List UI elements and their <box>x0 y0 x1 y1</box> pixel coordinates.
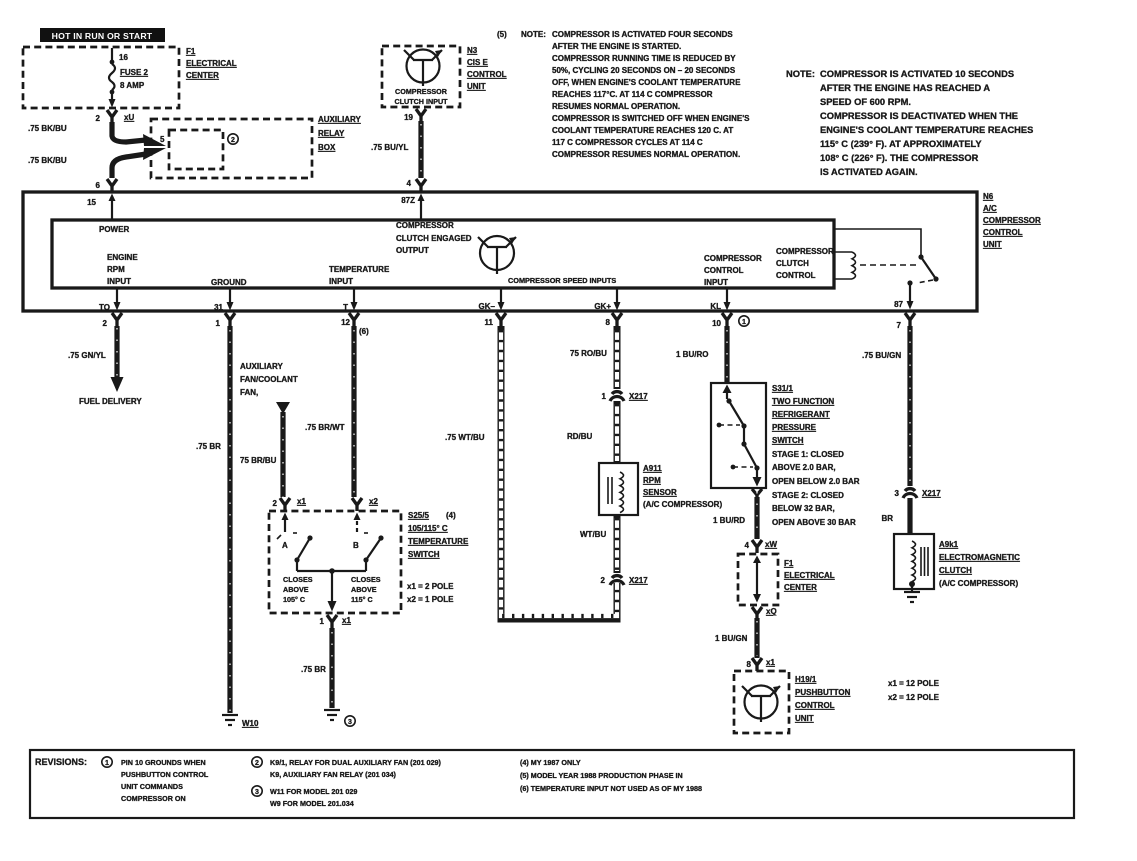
temp switch entry arrow A <box>277 513 289 540</box>
svg-text:3: 3 <box>348 719 352 726</box>
svg-text:31: 31 <box>214 303 223 312</box>
S31/1 stage contacts <box>717 398 760 470</box>
svg-text:TEMPERATURE: TEMPERATURE <box>408 537 469 546</box>
svg-text:PUSHBUTTON: PUSHBUTTON <box>795 688 851 697</box>
svg-text:GK+: GK+ <box>594 302 611 311</box>
svg-text:POWER: POWER <box>99 225 129 234</box>
A911 RPM sensor box <box>599 463 638 515</box>
svg-text:X217: X217 <box>629 392 648 401</box>
svg-text:CENTER: CENTER <box>784 583 817 592</box>
svg-text:19: 19 <box>404 113 413 122</box>
svg-text:2: 2 <box>96 114 101 123</box>
svg-text:ELECTROMAGNETIC: ELECTROMAGNETIC <box>939 553 1020 562</box>
x2 connector (temp switch) <box>352 497 378 511</box>
svg-text:NOTE:: NOTE: <box>521 30 546 39</box>
svg-text:AUXILIARY: AUXILIARY <box>240 362 283 371</box>
wire .75 BR (temp switch to ground) <box>301 628 332 708</box>
bottom terminal 87 pin 7 <box>897 313 915 330</box>
F1 lower internal wire <box>753 556 761 603</box>
N3 CIS E control unit box <box>382 46 460 107</box>
svg-text:RELAY: RELAY <box>318 129 345 138</box>
svg-text:87Z: 87Z <box>401 196 415 205</box>
svg-text:INPUT: INPUT <box>704 278 728 287</box>
label closes above 105 C <box>283 575 313 604</box>
svg-text:UNIT COMMANDS: UNIT COMMANDS <box>121 782 183 791</box>
ground W10 <box>222 715 259 728</box>
auxiliary relay box <box>151 119 312 178</box>
wire 1 BU/RO (KL) <box>676 326 727 383</box>
svg-text:x2 = 12 POLE: x2 = 12 POLE <box>888 693 940 702</box>
svg-text:OPEN ABOVE 30 BAR: OPEN ABOVE 30 BAR <box>772 518 856 527</box>
S31/1 entry arrow <box>723 385 732 400</box>
pin 4 connector <box>407 179 426 192</box>
svg-text:.75 BU/YL: .75 BU/YL <box>371 143 408 152</box>
temp switch contact B <box>353 533 384 571</box>
svg-text:FUEL DELIVERY: FUEL DELIVERY <box>79 397 142 406</box>
svg-text:x1 = 2 POLE: x1 = 2 POLE <box>407 582 454 591</box>
label TEMPERATURE INPUT <box>329 265 390 286</box>
svg-text:1: 1 <box>216 319 221 328</box>
svg-text:115° C: 115° C <box>351 595 373 604</box>
svg-text:RD/BU: RD/BU <box>567 432 593 441</box>
wire .75 GN/YL to fuel delivery <box>68 326 142 406</box>
svg-text:6: 6 <box>96 181 101 190</box>
svg-text:CONTROL: CONTROL <box>795 701 835 710</box>
revisions text <box>35 757 702 808</box>
bottom terminal KL <box>710 288 732 328</box>
svg-text:GROUND: GROUND <box>211 278 247 287</box>
S31/1 exit arrow <box>753 468 762 487</box>
svg-text:N6: N6 <box>983 192 994 201</box>
F1 electrical center box (top) <box>23 47 179 108</box>
svg-text:ABOVE: ABOVE <box>351 585 377 594</box>
temp switch common rail <box>297 568 366 611</box>
svg-text:STAGE 1: CLOSED: STAGE 1: CLOSED <box>772 450 844 459</box>
svg-text:(6): (6) <box>359 327 369 336</box>
N6 inner box <box>52 220 834 288</box>
svg-text:OUTPUT: OUTPUT <box>396 246 429 255</box>
svg-text:16: 16 <box>119 53 128 62</box>
svg-text:B: B <box>353 541 359 550</box>
bottom terminal GK+ <box>594 288 622 328</box>
svg-text:SWITCH: SWITCH <box>772 436 804 445</box>
feed triangle (aux fan wire) <box>276 402 290 414</box>
svg-text:87: 87 <box>894 300 903 309</box>
svg-text:COMPRESSOR IS DEACTIVATED WHEN: COMPRESSOR IS DEACTIVATED WHEN THE <box>820 111 1018 121</box>
svg-text:1: 1 <box>320 617 325 626</box>
svg-text:OFF, WHEN ENGINE'S COOLANT TEM: OFF, WHEN ENGINE'S COOLANT TEMPERATURE <box>552 78 741 87</box>
transistor symbol H19/1 <box>742 686 780 723</box>
svg-text:ELECTRICAL: ELECTRICAL <box>784 571 835 580</box>
transistor symbol in N6 <box>478 236 516 274</box>
label H19/1 pushbutton control unit <box>795 675 851 723</box>
pin 1 x1 connector (temp switch out) <box>320 615 352 630</box>
svg-text:S25/5: S25/5 <box>408 511 429 520</box>
svg-text:FUSE 2: FUSE 2 <box>120 68 149 77</box>
relay coil (clutch control) <box>834 252 856 279</box>
note (5) left <box>497 30 750 159</box>
svg-text:x2 = 1 POLE: x2 = 1 POLE <box>407 595 454 604</box>
svg-text:xU: xU <box>124 113 134 122</box>
label COMPRESSOR CLUTCH CONTROL <box>776 247 834 280</box>
svg-text:CONTROL: CONTROL <box>704 266 744 275</box>
label S31/1 pressure switch <box>772 384 860 527</box>
wire .75 BK/BU lower <box>28 148 166 178</box>
svg-text:INPUT: INPUT <box>329 277 353 286</box>
svg-text:COMPRESSOR IS ACTIVATED FOUR S: COMPRESSOR IS ACTIVATED FOUR SECONDS <box>552 30 733 39</box>
svg-text:ENGINE'S COOLANT TEMPERATURE R: ENGINE'S COOLANT TEMPERATURE REACHES <box>820 125 1033 135</box>
svg-text:T: T <box>343 303 348 312</box>
svg-text:X217: X217 <box>629 576 648 585</box>
svg-text:5: 5 <box>160 135 165 144</box>
svg-text:KL: KL <box>710 302 721 311</box>
bottom terminal TO <box>99 288 122 328</box>
svg-text:2: 2 <box>255 760 259 767</box>
svg-text:COOLANT TEMPERATURE REACHES 12: COOLANT TEMPERATURE REACHES 120 C. AT <box>552 126 733 135</box>
temp switch contact A <box>282 533 313 571</box>
svg-text:HOT IN RUN OR START: HOT IN RUN OR START <box>52 31 153 41</box>
svg-text:K9, AUXILIARY FAN RELAY (201 0: K9, AUXILIARY FAN RELAY (201 034) <box>270 770 397 779</box>
temp switch entry arrow B <box>354 513 361 533</box>
svg-text:CONTROL: CONTROL <box>776 271 816 280</box>
svg-text:1: 1 <box>742 319 746 326</box>
bottom terminal 31 <box>214 288 235 328</box>
S25/5 temperature switch box <box>269 511 401 613</box>
svg-text:(4) MY 1987 ONLY: (4) MY 1987 ONLY <box>520 758 581 767</box>
wire 1 BU/GN <box>715 618 757 658</box>
svg-text:COMPRESSOR IS SWITCHED OFF WHE: COMPRESSOR IS SWITCHED OFF WHEN ENGINE'S <box>552 114 750 123</box>
svg-text:RPM: RPM <box>643 476 661 485</box>
svg-text:PIN 10 GROUNDS WHEN: PIN 10 GROUNDS WHEN <box>121 758 206 767</box>
svg-text:IS ACTIVATED AGAIN.: IS ACTIVATED AGAIN. <box>820 167 918 177</box>
svg-text:108° C (226° F). THE COMPRESSO: 108° C (226° F). THE COMPRESSOR <box>820 153 979 163</box>
wire RD/BU <box>567 401 617 463</box>
svg-text:.75 BU/GN: .75 BU/GN <box>862 351 901 360</box>
svg-text:10: 10 <box>712 319 721 328</box>
svg-text:S31/1: S31/1 <box>772 384 793 393</box>
svg-text:1: 1 <box>105 760 109 767</box>
svg-text:ELECTRICAL: ELECTRICAL <box>186 59 237 68</box>
pin 6 connector <box>96 179 117 192</box>
svg-text:FAN,: FAN, <box>240 388 258 397</box>
svg-text:RESUMES NORMAL OPERATION.: RESUMES NORMAL OPERATION. <box>552 102 680 111</box>
svg-text:2: 2 <box>231 137 235 144</box>
label COMPRESSOR CLUTCH ENGAGED OUTPUT <box>396 221 472 255</box>
svg-text:.75 BK/BU: .75 BK/BU <box>28 124 67 133</box>
svg-text:STAGE 2: CLOSED: STAGE 2: CLOSED <box>772 491 844 500</box>
svg-text:A9k1: A9k1 <box>939 540 959 549</box>
svg-text:8 AMP: 8 AMP <box>120 81 145 90</box>
ground (A9k1) <box>904 592 920 602</box>
relay actuation dashed line <box>860 264 916 266</box>
svg-text:F1: F1 <box>186 47 196 56</box>
wire BR (clutch) <box>881 498 910 534</box>
svg-text:UNIT: UNIT <box>467 82 486 91</box>
svg-text:CONTROL: CONTROL <box>983 228 1023 237</box>
svg-text:1 BU/GN: 1 BU/GN <box>715 634 748 643</box>
label A911 RPM sensor <box>643 464 722 509</box>
svg-text:COMPRESSOR: COMPRESSOR <box>776 247 834 256</box>
label N6 A/C compressor control unit <box>983 192 1041 249</box>
ground (temp switch) circled 3 <box>324 710 355 726</box>
svg-text:12: 12 <box>341 318 350 327</box>
svg-text:1 BU/RD: 1 BU/RD <box>713 516 745 525</box>
svg-text:PUSHBUTTON CONTROL: PUSHBUTTON CONTROL <box>121 770 209 779</box>
revisions box <box>30 750 1074 818</box>
label F1 electrical center (lower) <box>784 559 835 592</box>
svg-text:W10: W10 <box>242 719 259 728</box>
svg-text:(5): (5) <box>497 30 507 39</box>
relay switch arm <box>907 254 938 285</box>
wire 1 BU/RD <box>713 492 757 539</box>
svg-text:SWITCH: SWITCH <box>408 550 440 559</box>
svg-text:REFRIGERANT: REFRIGERANT <box>772 410 830 419</box>
label N3 CIS E control unit <box>467 46 507 91</box>
label COMPRESSOR CONTROL INPUT <box>704 254 762 287</box>
svg-text:1: 1 <box>602 392 607 401</box>
svg-text:A/C: A/C <box>983 204 997 213</box>
svg-text:W11 FOR MODEL 201 029: W11 FOR MODEL 201 029 <box>270 787 357 796</box>
S31/1 pressure switch box <box>711 383 766 488</box>
svg-text:K9/1, RELAY FOR DUAL AUXILIARY: K9/1, RELAY FOR DUAL AUXILIARY FAN (201 … <box>270 758 442 767</box>
svg-text:AFTER THE ENGINE IS STARTED.: AFTER THE ENGINE IS STARTED. <box>552 42 681 51</box>
wire .75 WT/BU (GK- loop) <box>445 326 617 619</box>
svg-text:xW: xW <box>765 540 777 549</box>
svg-text:SENSOR: SENSOR <box>643 488 677 497</box>
svg-text:(5) MODEL YEAR 1988 PRODUCTIO: (5) MODEL YEAR 1988 PRODUCTION PHASE IN <box>520 771 683 780</box>
svg-text:INPUT: INPUT <box>107 277 131 286</box>
pin 8 x1 connector <box>747 658 776 671</box>
label auxiliary fan/coolant fan <box>240 362 298 397</box>
svg-text:COMPRESSOR: COMPRESSOR <box>704 254 762 263</box>
svg-text:WT/BU: WT/BU <box>580 530 606 539</box>
svg-text:105/115° C: 105/115° C <box>408 524 448 533</box>
svg-text:8: 8 <box>747 660 752 669</box>
H19/1 pushbutton control unit box <box>734 671 789 733</box>
svg-text:CONTROL: CONTROL <box>467 70 507 79</box>
svg-text:FAN/COOLANT: FAN/COOLANT <box>240 375 298 384</box>
svg-text:.75 BK/BU: .75 BK/BU <box>28 156 67 165</box>
svg-text:x1 = 12 POLE: x1 = 12 POLE <box>888 679 940 688</box>
svg-text:xQ: xQ <box>766 607 777 616</box>
svg-text:ABOVE 2.0 BAR,: ABOVE 2.0 BAR, <box>772 463 836 472</box>
xQ connector <box>752 607 777 620</box>
svg-text:H19/1: H19/1 <box>795 675 817 684</box>
svg-text:115° C (239° F). AT APPROXIMAT: 115° C (239° F). AT APPROXIMATELY <box>820 139 982 149</box>
label S25/5 temperature switch <box>408 511 469 559</box>
wire .75 BK/BU upper <box>28 122 166 146</box>
label ENGINE RPM INPUT <box>107 253 138 286</box>
svg-text:(A/C COMPRESSOR): (A/C COMPRESSOR) <box>939 579 1018 588</box>
svg-text:1 BU/RO: 1 BU/RO <box>676 350 708 359</box>
svg-text:COMPRESSOR SPEED INPUTS: COMPRESSOR SPEED INPUTS <box>508 276 616 285</box>
svg-text:REVISIONS:: REVISIONS: <box>35 757 87 767</box>
svg-text:COMPRESSOR ON: COMPRESSOR ON <box>121 794 186 803</box>
svg-text:N3: N3 <box>467 46 478 55</box>
svg-text:3: 3 <box>255 789 259 796</box>
circled 1 (KL pin) <box>739 316 749 326</box>
svg-text:ENGINE: ENGINE <box>107 253 138 262</box>
svg-text:4: 4 <box>407 179 412 188</box>
svg-text:7: 7 <box>897 321 902 330</box>
svg-text:UNIT: UNIT <box>795 714 814 723</box>
svg-text:4: 4 <box>745 541 750 550</box>
svg-text:UNIT: UNIT <box>983 240 1002 249</box>
svg-text:BELOW 32 BAR,: BELOW 32 BAR, <box>772 504 835 513</box>
svg-text:105° C: 105° C <box>283 595 305 604</box>
terminal 87Z arrow <box>401 194 424 221</box>
svg-text:SPEED OF 600 RPM.: SPEED OF 600 RPM. <box>820 97 911 107</box>
svg-text:CLOSES: CLOSES <box>283 575 313 584</box>
label auxiliary relay box <box>318 115 361 152</box>
relay wire to switch pivot <box>834 229 921 255</box>
svg-text:.75 WT/BU: .75 WT/BU <box>445 433 485 442</box>
svg-text:CENTER: CENTER <box>186 71 219 80</box>
terminal 87 arrow <box>894 285 913 310</box>
svg-text:x1: x1 <box>766 658 775 667</box>
svg-text:REACHES 117°C. AT 114 C COMPRE: REACHES 117°C. AT 114 C COMPRESSOR <box>552 90 713 99</box>
svg-text:TO: TO <box>99 303 110 312</box>
pin 2 connector xU <box>96 110 135 124</box>
svg-text:CLUTCH: CLUTCH <box>939 566 972 575</box>
svg-text:COMPRESSOR: COMPRESSOR <box>396 221 454 230</box>
svg-text:COMPRESSOR: COMPRESSOR <box>395 87 448 96</box>
svg-text:TWO FUNCTION: TWO FUNCTION <box>772 397 834 406</box>
label A9k1 electromagnetic clutch <box>939 540 1020 588</box>
S31/1 exit fork <box>752 489 762 501</box>
svg-text:GK–: GK– <box>479 302 496 311</box>
svg-text:CIS E: CIS E <box>467 58 489 67</box>
label compressor clutch input <box>394 87 448 106</box>
N6 A/C compressor control unit outer box <box>23 192 977 311</box>
svg-text:F1: F1 <box>784 559 794 568</box>
connector X217 pin 3 <box>895 489 942 498</box>
svg-text:COMPRESSOR RESUMES NORMAL OPER: COMPRESSOR RESUMES NORMAL OPERATION. <box>552 150 740 159</box>
svg-text:CLUTCH INPUT: CLUTCH INPUT <box>394 97 448 106</box>
fuse F2 8 AMP <box>109 48 149 108</box>
bottom terminal T <box>341 288 369 336</box>
svg-text:x2: x2 <box>369 497 378 506</box>
wire 75 BR/BU <box>240 412 283 497</box>
connector X217 pin 1 <box>602 392 649 401</box>
svg-text:BR: BR <box>881 514 893 523</box>
svg-text:3: 3 <box>895 489 900 498</box>
circled 2 (aux relay) <box>228 134 238 144</box>
svg-text:COMPRESSOR RUNNING TIME IS RED: COMPRESSOR RUNNING TIME IS REDUCED BY <box>552 54 736 63</box>
note right <box>786 69 1033 177</box>
pin 19 connector <box>404 109 426 123</box>
svg-text:x1: x1 <box>342 616 351 625</box>
wire .75 BU/YL <box>371 121 421 178</box>
svg-text:x1: x1 <box>297 497 306 506</box>
svg-text:COMPRESSOR IS ACTIVATED 10 SEC: COMPRESSOR IS ACTIVATED 10 SECONDS <box>820 69 1014 79</box>
label x1 x2 pole (temp switch) <box>407 582 454 604</box>
label closes above 115 C <box>351 575 381 604</box>
svg-text:.75 BR/WT: .75 BR/WT <box>305 423 345 432</box>
svg-text:50%, CYCLING 20 SECONDS ON – 2: 50%, CYCLING 20 SECONDS ON – 20 SECONDS <box>552 66 736 75</box>
svg-text:.75 BR: .75 BR <box>301 665 326 674</box>
svg-text:.75 GN/YL: .75 GN/YL <box>68 351 106 360</box>
svg-text:11: 11 <box>485 318 494 327</box>
A9k1 electromagnetic clutch box <box>894 534 934 592</box>
svg-text:ABOVE: ABOVE <box>283 585 309 594</box>
svg-text:AFTER THE ENGINE HAS REACHED A: AFTER THE ENGINE HAS REACHED A <box>820 83 990 93</box>
svg-text:A: A <box>282 541 288 550</box>
wire .75 BU/GN (87) <box>862 326 910 486</box>
svg-text:AUXILIARY: AUXILIARY <box>318 115 361 124</box>
svg-text:117 C COMPRESSOR CYCLES AT 11: 117 C COMPRESSOR CYCLES AT 114 C <box>552 138 703 147</box>
svg-text:CLUTCH: CLUTCH <box>776 259 809 268</box>
svg-text:2: 2 <box>103 319 108 328</box>
svg-text:X217: X217 <box>922 489 941 498</box>
svg-text:CLUTCH ENGAGED: CLUTCH ENGAGED <box>396 234 472 243</box>
F1 electrical center box (lower) <box>738 554 778 605</box>
transistor symbol N3 <box>404 50 442 87</box>
pin 4 xW connector <box>745 540 778 553</box>
connector X217 pin 2 <box>601 576 649 585</box>
wire .75 BR (ground 31) <box>196 326 230 713</box>
wire .75 BR/WT (pin 12) <box>305 326 354 497</box>
svg-text:W9 FOR MODEL 201.034: W9 FOR MODEL 201.034 <box>270 799 354 808</box>
wire WT/BU <box>580 515 617 573</box>
label x1 x2 12 pole <box>888 679 940 702</box>
svg-text:(4): (4) <box>446 511 456 520</box>
svg-text:15: 15 <box>87 198 96 207</box>
svg-text:OPEN BELOW 2.0 BAR: OPEN BELOW 2.0 BAR <box>772 477 860 486</box>
pin 2 x1 connector (temp switch) <box>273 497 307 511</box>
svg-text:75 RO/BU: 75 RO/BU <box>570 349 607 358</box>
hot in run or start banner <box>40 28 165 42</box>
bottom terminal GK- <box>479 288 506 328</box>
svg-text:75 BR/BU: 75 BR/BU <box>240 456 277 465</box>
svg-text:TEMPERATURE: TEMPERATURE <box>329 265 390 274</box>
svg-text:(6) TEMPERATURE INPUT NOT USE: (6) TEMPERATURE INPUT NOT USED AS OF MY … <box>520 784 702 793</box>
svg-text:NOTE:: NOTE: <box>786 69 815 79</box>
label F1 electrical center (top) <box>186 47 237 80</box>
svg-text:CLOSES: CLOSES <box>351 575 381 584</box>
svg-text:2: 2 <box>601 576 606 585</box>
terminal 15 arrow (power) <box>87 194 115 221</box>
svg-text:(A/C COMPRESSOR): (A/C COMPRESSOR) <box>643 500 722 509</box>
svg-text:COMPRESSOR: COMPRESSOR <box>983 216 1041 225</box>
svg-text:BOX: BOX <box>318 143 336 152</box>
svg-text:RPM: RPM <box>107 265 125 274</box>
svg-text:8: 8 <box>606 318 611 327</box>
wire .75 RO/BU (GK+) <box>570 326 617 389</box>
svg-text:A911: A911 <box>643 464 662 473</box>
svg-text:PRESSURE: PRESSURE <box>772 423 817 432</box>
svg-text:2: 2 <box>273 499 278 508</box>
svg-text:.75 BR: .75 BR <box>196 442 221 451</box>
